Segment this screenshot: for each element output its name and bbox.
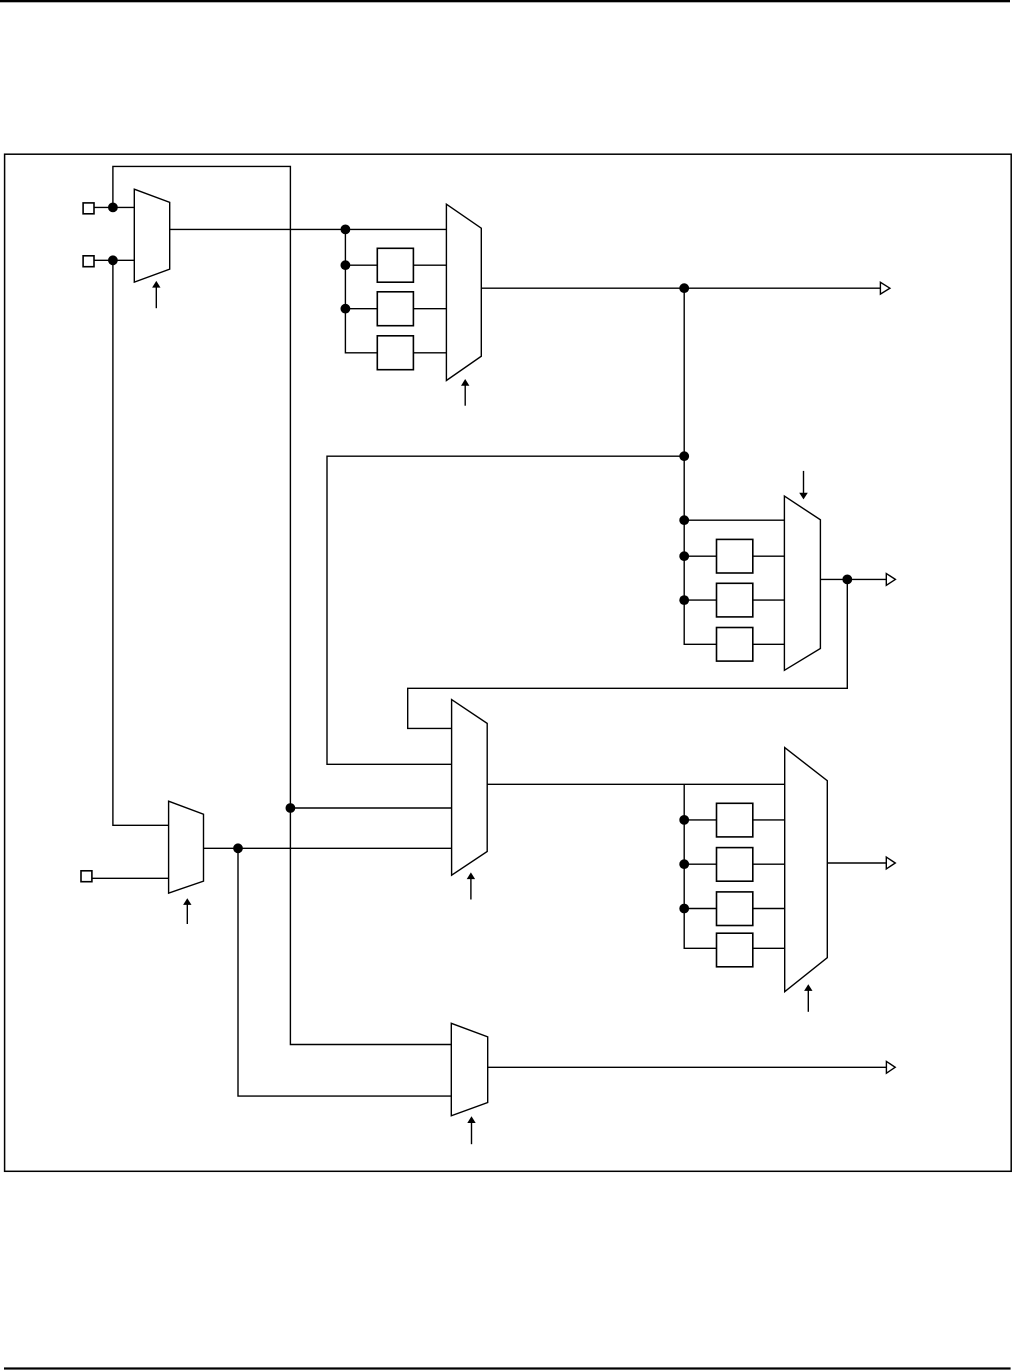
node E bus B1 tap 1 <box>341 260 351 270</box>
wire from node B down to mux U6 input 1 <box>113 260 169 825</box>
node F bus B1 tap 2 <box>341 304 351 314</box>
wire bus B2 to mux U3 input 1 <box>684 519 784 521</box>
mux U7 <box>451 1023 487 1116</box>
output arrow A4 <box>886 1061 895 1073</box>
mux U1 <box>134 189 169 282</box>
wire divider V1 output <box>413 264 446 266</box>
divider V2 <box>377 292 413 326</box>
select arrow for mux U6 <box>183 898 191 924</box>
wire mux U3 output <box>820 578 886 580</box>
wire bus B2 to divider V5 <box>684 599 716 601</box>
node L on mux U3 output <box>842 575 852 585</box>
wire divider V3 output <box>413 352 446 354</box>
wire divider V8 output <box>753 863 785 865</box>
wire loop from node L down left and to mux U4 input 1 <box>408 579 848 728</box>
wire divider V9 output <box>753 908 785 910</box>
output arrow A2 <box>886 574 895 586</box>
node P on mux U6 output <box>233 843 243 853</box>
wire divider V2 output <box>413 308 446 310</box>
wire bus B1 <box>345 229 377 352</box>
wire mux U5 output <box>827 862 886 864</box>
wire mux U7 output <box>488 1066 887 1068</box>
wire node C to mux U4 input 3 <box>290 807 451 809</box>
wire bus B3 to divider V8 <box>684 863 716 865</box>
select arrow for mux U1 <box>152 281 160 308</box>
wire P1 to mux U1 input 1 <box>94 206 134 208</box>
wire divider V4 output <box>753 555 785 557</box>
node J bus B2 tap divider V4 <box>679 551 689 561</box>
wire mux U4 output to mux U5 input 1 <box>487 783 785 785</box>
wire bus B2 to divider V4 <box>684 555 716 557</box>
input pad P2 <box>83 256 94 267</box>
divider V7 <box>717 803 753 837</box>
input pad P1 <box>83 203 94 214</box>
output arrow A1 <box>880 282 890 294</box>
node M bus B3 tap divider V7 <box>679 815 689 825</box>
node G on mux U2 output <box>679 283 689 293</box>
wire bus B2 <box>684 288 716 644</box>
wire divider V5 output <box>753 599 785 601</box>
wire branch left and down to mux U4 input 2 <box>327 456 684 764</box>
node I bus B2 to mux U3 input 1 <box>679 515 689 525</box>
wire P3 to mux U6 input 2 <box>93 877 169 879</box>
select arrow for mux U4 <box>467 872 475 899</box>
wire P2 to mux U1 input 2 <box>94 259 134 261</box>
wire mux U6 output to mux U4 input 4 <box>204 847 452 849</box>
divider V3 <box>377 336 413 370</box>
wire bus B1 to divider V1 <box>345 264 377 266</box>
node H bus B2 branch left <box>679 451 689 461</box>
wire mux U2 output <box>481 287 880 289</box>
node B on P2 wire <box>108 255 118 265</box>
mux U5 <box>785 748 828 992</box>
node O bus B3 tap divider V9 <box>679 904 689 914</box>
mux U3 <box>784 496 820 670</box>
node N bus B3 tap divider V8 <box>679 859 689 869</box>
mux U6 <box>169 801 204 893</box>
divider V8 <box>717 848 753 882</box>
select arrow for mux U7 <box>467 1116 475 1144</box>
wire divider V7 output <box>753 819 785 821</box>
divider V5 <box>717 583 753 617</box>
wire bus B3 to divider V9 <box>684 908 716 910</box>
wire divider V6 output <box>753 643 785 645</box>
wire node P down to mux U7 input 2 <box>238 848 451 1096</box>
output arrow A3 <box>886 857 895 869</box>
node C on feedback vertical <box>286 803 296 813</box>
footer rule <box>4 1367 1011 1369</box>
select arrow for mux U3 pointing down <box>799 471 808 500</box>
mux U2 <box>446 204 481 380</box>
wire divider V10 output <box>753 947 785 949</box>
divider V4 <box>717 539 753 573</box>
mux U4 <box>452 700 488 876</box>
wire bus B3 to divider V7 <box>684 819 716 821</box>
wire bus B1 to divider V2 <box>345 308 377 310</box>
header rule <box>0 0 1010 2</box>
divider V1 <box>377 248 413 282</box>
select arrow for mux U5 <box>804 984 812 1012</box>
wire bus B3 <box>684 784 716 948</box>
wire feedback from node A up right and down to mux U7 input 1 <box>113 166 451 1044</box>
node K bus B2 tap divider V5 <box>679 595 689 605</box>
node D bus B1 top <box>341 225 351 235</box>
divider V10 <box>717 933 753 967</box>
divider V9 <box>717 892 753 926</box>
divider V6 <box>717 628 753 662</box>
select arrow for mux U2 <box>461 379 469 406</box>
input pad P3 <box>81 871 92 882</box>
node A on P1 wire <box>108 203 118 213</box>
wire mux U1 output to mux U2 input 1 <box>170 228 447 230</box>
